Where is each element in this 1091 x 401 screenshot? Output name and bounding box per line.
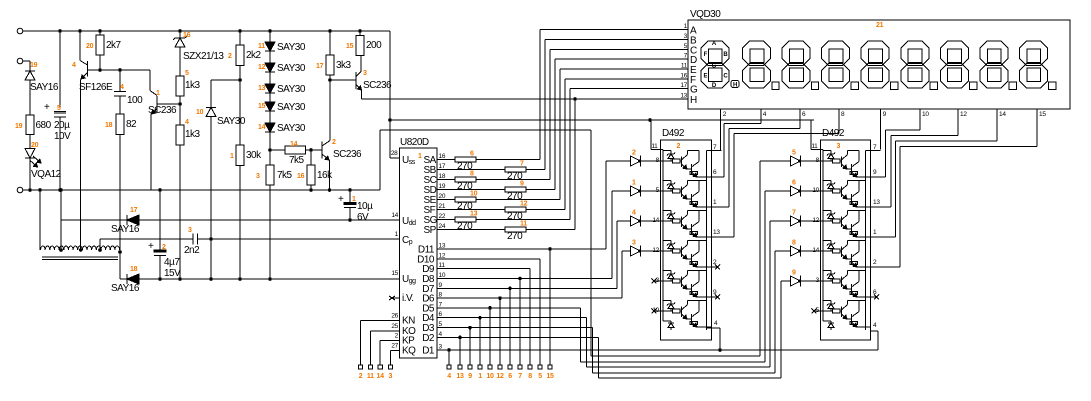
svg-text:4: 4	[185, 119, 189, 126]
svg-text:26: 26	[391, 312, 398, 319]
resistor R9 270	[437, 189, 505, 191]
wire riser diode a1	[611, 191, 613, 279]
wire KQ to pad	[390, 350, 399, 352]
svg-text:D: D	[712, 83, 717, 89]
zener common bottom	[670, 321, 672, 323]
wire display pin2 to pin7	[720, 109, 722, 151]
resistor R16 16k	[310, 150, 312, 165]
svg-text:17: 17	[316, 63, 324, 70]
wire D1 pad drop	[448, 350, 450, 365]
svg-text:10: 10	[196, 109, 204, 116]
wire	[59, 117, 61, 190]
wire D10 pad drop	[539, 259, 541, 365]
svg-text:30k: 30k	[246, 150, 262, 161]
svg-text:19: 19	[30, 62, 38, 69]
svg-text:13: 13	[258, 85, 266, 92]
wire D4 row	[437, 317, 586, 319]
terminal input 1	[17, 28, 23, 34]
svg-text:SAY30: SAY30	[277, 42, 306, 53]
junction center tap	[79, 248, 83, 252]
svg-text:680: 680	[36, 120, 52, 131]
svg-text:SF126E: SF126E	[79, 82, 113, 93]
svg-text:270: 270	[457, 221, 473, 232]
wire D7 row	[437, 287, 617, 289]
wire to display pin 15	[899, 147, 901, 268]
wire Udd row left	[61, 219, 127, 221]
node Uss rail row 120	[390, 119, 814, 121]
display U21 VQD30 package	[688, 20, 1070, 109]
svg-text:1: 1	[352, 196, 356, 203]
svg-text:2: 2	[359, 373, 363, 380]
terminal pad 12	[498, 365, 502, 369]
svg-text:18: 18	[130, 266, 138, 273]
wire tap1 up	[60, 190, 62, 250]
svg-text:20µ: 20µ	[54, 120, 70, 131]
wire Udd row	[139, 219, 400, 221]
pin 9 digit cathode	[880, 109, 882, 117]
wire D6 pad drop	[499, 298, 501, 365]
svg-text:13: 13	[470, 211, 478, 218]
resistor R10 270	[437, 199, 455, 201]
wire D8 pad drop	[519, 279, 521, 366]
svg-text:270: 270	[507, 231, 523, 242]
svg-text:D492: D492	[662, 128, 685, 139]
svg-text:6V: 6V	[357, 212, 369, 223]
wire	[210, 117, 212, 240]
svg-text:B: B	[723, 52, 728, 58]
capacitor C5 20u/10V	[54, 111, 66, 113]
diode D10 SAY30	[206, 107, 216, 109]
terminal pad 8	[528, 365, 532, 369]
wire common rail	[662, 149, 664, 321]
resistor R8 270	[437, 179, 455, 181]
wire to display pin 12	[890, 136, 892, 208]
wire segment D	[526, 189, 555, 191]
terminal pad 1	[478, 365, 482, 369]
resistor R12 270	[437, 209, 505, 211]
svg-text:4: 4	[447, 373, 451, 380]
svg-text:14: 14	[999, 111, 1006, 118]
svg-text:13: 13	[439, 243, 446, 250]
svg-text:SC236: SC236	[363, 80, 392, 91]
svg-text:7: 7	[792, 210, 796, 217]
svg-text:H: H	[733, 83, 737, 89]
wire riser diode a3	[621, 251, 623, 298]
svg-text:16: 16	[297, 173, 305, 180]
wire base node	[88, 69, 151, 71]
svg-text:16k: 16k	[317, 170, 333, 181]
svg-text:12: 12	[439, 252, 446, 259]
wire Q2 collector	[329, 80, 331, 141]
wire top rail corner down	[389, 31, 391, 158]
pin 4 digit cathode	[760, 109, 762, 117]
svg-text:10: 10	[439, 272, 446, 279]
transistor pair cell 2	[823, 179, 831, 181]
svg-text:9: 9	[520, 181, 524, 188]
wire top rail	[23, 30, 390, 32]
wire D9 row	[437, 268, 530, 270]
wire D3 drop to bus4	[591, 328, 593, 373]
svg-text:13: 13	[713, 229, 720, 236]
node bus1	[591, 355, 760, 357]
wire 82 down to lower rail	[119, 135, 121, 253]
wire	[641, 190, 661, 192]
terminal pad 3	[388, 365, 392, 369]
svg-text:5: 5	[792, 150, 796, 157]
svg-text:2k2: 2k2	[246, 50, 262, 61]
terminal pad 4	[447, 365, 451, 369]
resistor R20 2k7	[99, 31, 101, 35]
svg-text:KQ: KQ	[402, 346, 416, 357]
wire D5 row	[437, 307, 580, 309]
wire D9 pad drop	[529, 269, 531, 365]
junction	[268, 29, 272, 33]
diode D19 SAY16	[25, 70, 35, 72]
junction	[328, 29, 332, 33]
transistor pair cell 3	[823, 209, 831, 211]
svg-text:7: 7	[520, 161, 524, 168]
wire	[801, 250, 821, 252]
pin iV unconnected	[393, 297, 400, 299]
svg-text:28: 28	[391, 150, 398, 157]
wire display pin9	[880, 109, 882, 149]
junction	[58, 29, 62, 33]
pin 2 digit cathode	[720, 109, 722, 117]
wire D2 row	[437, 336, 598, 338]
transistor pair cell 6	[823, 299, 831, 301]
wire	[329, 75, 331, 80]
svg-text:H: H	[690, 95, 697, 106]
svg-text:20: 20	[86, 43, 94, 50]
node bus2	[581, 361, 766, 363]
wire riser diode a7	[770, 220, 791, 222]
svg-text:3: 3	[837, 143, 841, 150]
terminal pad 9	[468, 365, 472, 369]
svg-text:11: 11	[439, 262, 446, 269]
svg-text:1: 1	[418, 153, 422, 160]
junction	[38, 188, 42, 192]
wire	[179, 96, 181, 104]
svg-text:A: A	[712, 41, 717, 47]
wire	[29, 158, 31, 190]
svg-text:SC236: SC236	[333, 149, 362, 160]
wire D2 drop to bus5	[597, 337, 599, 378]
pin 14 digit cathode	[996, 109, 998, 117]
svg-text:SAY16: SAY16	[111, 224, 140, 235]
terminal pad 10	[488, 365, 492, 369]
svg-text:2: 2	[677, 143, 681, 150]
svg-text:2: 2	[228, 53, 232, 60]
junction	[178, 29, 182, 33]
resistor R17 3k3	[329, 31, 331, 55]
diode D18 SAY16	[126, 274, 128, 284]
svg-text:9: 9	[792, 270, 796, 277]
svg-text:17: 17	[130, 207, 138, 214]
node bus4	[592, 372, 775, 374]
pin 6 digit cathode	[799, 109, 801, 117]
capacitor C1 10u/6V	[349, 190, 351, 203]
wire	[641, 220, 661, 222]
svg-text:VQA12: VQA12	[31, 169, 62, 180]
svg-text:10: 10	[486, 373, 494, 380]
wire to display pin 4	[723, 124, 725, 178]
resistor R19 680	[26, 115, 34, 135]
svg-text:16: 16	[439, 153, 446, 160]
wire collector rail	[865, 150, 867, 330]
svg-text:1: 1	[156, 90, 160, 97]
diode D1	[631, 186, 641, 196]
wire Cp row	[198, 238, 400, 240]
svg-text:SAY30: SAY30	[277, 102, 306, 113]
junction tap3	[98, 248, 102, 252]
wire Q3 emitter to H row	[361, 90, 363, 99]
wire collector rail	[706, 150, 708, 330]
pin 12 digit cathode	[957, 109, 959, 117]
resistor R3 7k5	[266, 165, 274, 185]
svg-text:5: 5	[57, 105, 61, 112]
wire segment P	[526, 229, 575, 231]
capacitor C4 100	[114, 91, 126, 93]
svg-text:+: +	[44, 102, 50, 113]
svg-text:17: 17	[680, 82, 687, 89]
wire	[119, 70, 121, 92]
svg-text:22: 22	[439, 213, 446, 220]
wire	[269, 72, 271, 84]
wire 30k down	[239, 166, 241, 280]
wire to SAY30	[211, 79, 240, 81]
wire mid rail end up	[379, 130, 381, 190]
svg-text:15V: 15V	[164, 268, 181, 279]
diode D17 SAY16	[126, 215, 128, 225]
svg-text:11: 11	[681, 63, 688, 70]
svg-text:15: 15	[391, 270, 398, 277]
svg-text:20: 20	[31, 142, 39, 149]
transistor pair cell 5	[823, 269, 831, 271]
resistor R11 270	[437, 229, 505, 231]
wire KP to pad	[380, 340, 399, 342]
svg-text:1k3: 1k3	[185, 80, 201, 91]
junction tap	[59, 248, 63, 252]
wire segment G	[476, 219, 570, 221]
zener D16 SZX21/13	[179, 31, 181, 38]
wire	[269, 51, 271, 63]
diode D2	[631, 156, 641, 166]
terminal pad 2	[359, 365, 363, 369]
wire rail drop to bus1	[590, 130, 592, 356]
svg-text:SAY30: SAY30	[277, 123, 306, 134]
wire to display pin 14	[895, 141, 897, 237]
wire to display pin 10	[884, 130, 886, 177]
diode D14 SAY30	[265, 123, 275, 132]
svg-text:1: 1	[230, 153, 234, 160]
svg-text:3k3: 3k3	[336, 60, 352, 71]
transistor pair cell 3	[663, 209, 671, 211]
display digit 5	[901, 41, 929, 66]
svg-text:6: 6	[508, 373, 512, 380]
display digit 3	[822, 41, 850, 66]
svg-text:E: E	[703, 74, 707, 80]
svg-text:4µ7: 4µ7	[164, 257, 180, 268]
wire D3 row	[437, 327, 592, 329]
terminal input 3	[17, 187, 23, 193]
wire	[641, 160, 661, 162]
resistor R7 270	[437, 169, 505, 171]
wire from terminal 2	[23, 60, 30, 62]
svg-text:24: 24	[439, 223, 446, 230]
node segment H row	[362, 98, 689, 100]
resistor R14 7k5	[270, 149, 285, 151]
wire Q2 base	[311, 149, 322, 151]
svg-text:SAY30: SAY30	[277, 84, 306, 95]
diode D15 SAY30	[265, 102, 275, 111]
wire emitter to tap	[80, 80, 82, 251]
diode D3	[631, 246, 641, 256]
junction	[98, 29, 102, 33]
svg-text:6: 6	[470, 151, 474, 158]
wire D11 pad drop	[549, 249, 551, 365]
op-amp U2 D492	[661, 140, 712, 340]
svg-text:14: 14	[290, 141, 298, 148]
wire D2 pad drop	[459, 337, 461, 365]
wire	[801, 190, 821, 192]
wire riser diode a9	[781, 280, 791, 282]
svg-text:18: 18	[105, 122, 113, 129]
transformer secondary winding	[41, 246, 46, 250]
svg-text:2: 2	[162, 244, 166, 251]
svg-text:2k7: 2k7	[106, 40, 122, 51]
svg-text:4: 4	[120, 84, 124, 91]
wire D1 row	[437, 349, 878, 351]
node bus5	[598, 377, 781, 379]
svg-text:7k5: 7k5	[289, 155, 305, 166]
svg-text:5: 5	[185, 70, 189, 77]
wire 2k7 to base node	[99, 55, 101, 70]
svg-text:15: 15	[346, 43, 354, 50]
pin 10 digit cathode	[919, 109, 921, 117]
transistor pair cell 4	[663, 239, 671, 241]
svg-text:12: 12	[812, 217, 819, 224]
svg-text:6: 6	[792, 180, 796, 187]
svg-text:13: 13	[680, 93, 687, 100]
resistor R13 270	[437, 219, 455, 221]
svg-text:12: 12	[652, 247, 659, 254]
display legend digit	[701, 41, 729, 66]
wire Q3 collector	[360, 56, 362, 72]
svg-text:11: 11	[258, 43, 265, 50]
wire	[306, 149, 323, 151]
wire KO to pad	[370, 330, 399, 332]
svg-text:SAY30: SAY30	[277, 63, 306, 74]
wire riser diode a6	[765, 190, 791, 192]
svg-text:1k3: 1k3	[185, 129, 201, 140]
resistor R15 200	[359, 31, 361, 36]
node bus3	[587, 366, 771, 368]
wire to display pin 8	[733, 134, 735, 238]
svg-text:2n2: 2n2	[184, 245, 200, 256]
svg-text:11: 11	[367, 373, 374, 380]
svg-text:F: F	[704, 52, 708, 58]
svg-text:U820D: U820D	[400, 137, 429, 148]
resistor R6 270	[437, 159, 455, 161]
wire segment E	[476, 199, 560, 201]
wire D8 row	[437, 278, 612, 280]
svg-text:17: 17	[439, 163, 446, 170]
svg-text:10µ: 10µ	[357, 201, 373, 212]
wire D6 row	[437, 297, 622, 299]
wire	[29, 80, 31, 115]
wire	[801, 220, 821, 222]
wire D4 drop to bus3	[586, 318, 588, 367]
terminal pad 15	[548, 365, 552, 369]
wire Q1 collector up	[149, 70, 151, 91]
svg-text:7: 7	[518, 373, 522, 380]
wire riser diode a5	[760, 160, 791, 162]
svg-text:10: 10	[922, 111, 929, 118]
svg-text:SAY16: SAY16	[30, 82, 59, 93]
capacitor C3 2n2	[192, 234, 194, 245]
display digit 4	[861, 41, 889, 66]
wire Cp row left	[100, 238, 193, 240]
svg-text:5: 5	[538, 373, 542, 380]
svg-text:1: 1	[478, 373, 482, 380]
svg-text:12: 12	[496, 373, 504, 380]
diode D13 SAY30	[265, 84, 275, 93]
svg-text:20: 20	[439, 193, 446, 200]
svg-text:14: 14	[258, 124, 266, 131]
wire	[119, 96, 121, 114]
svg-text:C: C	[723, 74, 728, 80]
svg-text:+: +	[338, 194, 344, 205]
wire Q2 emitter	[329, 160, 331, 190]
wire KN to pad	[361, 319, 400, 321]
wire	[239, 66, 241, 81]
wire D11 row	[437, 248, 606, 250]
transistor Q SF126E	[87, 61, 89, 77]
svg-text:SP: SP	[424, 225, 437, 236]
pin 8 digit cathode	[838, 109, 840, 117]
diode D9	[791, 276, 801, 286]
diode D11 SAY30	[265, 42, 275, 51]
wire	[269, 31, 271, 42]
terminal pad 11	[368, 365, 372, 369]
svg-text:21: 21	[439, 203, 446, 210]
svg-text:8: 8	[470, 171, 474, 178]
svg-text:12: 12	[520, 201, 528, 208]
junction coil right	[118, 250, 122, 254]
transistor pair cell 6	[663, 299, 671, 301]
svg-text:3: 3	[363, 70, 367, 77]
svg-text:19: 19	[439, 183, 446, 190]
wire	[179, 47, 181, 76]
junction	[78, 29, 82, 33]
svg-text:10: 10	[812, 187, 819, 194]
diode D12 SAY30	[265, 63, 275, 72]
svg-text:16: 16	[680, 72, 687, 79]
svg-text:10: 10	[470, 191, 478, 198]
svg-text:100: 100	[127, 95, 143, 106]
svg-text:4: 4	[72, 62, 76, 69]
transistor pair cell 1	[663, 149, 671, 151]
pin 15 digit cathode	[1036, 109, 1038, 117]
resistor R1 30k	[239, 80, 241, 145]
resistor R2 2k2	[239, 31, 241, 45]
svg-text:8: 8	[792, 240, 796, 247]
diode D8	[791, 246, 801, 256]
wire common rail	[822, 149, 824, 321]
svg-text:200: 200	[366, 40, 382, 51]
svg-text:4: 4	[632, 210, 636, 217]
svg-text:2: 2	[632, 150, 636, 157]
